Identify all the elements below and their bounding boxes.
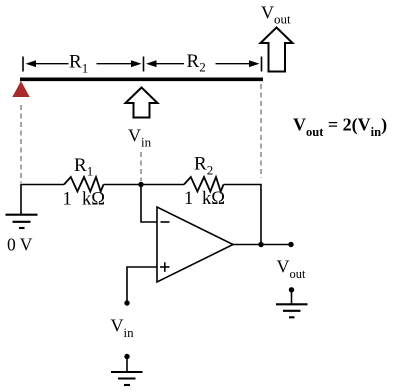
dimension arrow R2 right xyxy=(216,60,260,67)
plus pin symbol xyxy=(160,262,170,272)
svg-text:Vout = 2(Vin): Vout = 2(Vin) xyxy=(293,115,387,140)
svg-text:R1: R1 xyxy=(74,155,93,179)
dimension tick right xyxy=(261,57,263,72)
resistor R1 xyxy=(64,177,104,192)
dimension arrow R1 left xyxy=(26,60,69,67)
wire: R2 to output column xyxy=(224,185,262,245)
wire: dot to ground (right) xyxy=(291,290,293,304)
svg-text:Vin: Vin xyxy=(111,316,135,341)
wire: node down to inverting input xyxy=(141,185,157,223)
output junction dot xyxy=(258,242,263,247)
node junction dot xyxy=(138,182,143,187)
Vout hollow arrow xyxy=(261,28,293,72)
lever bar (potentiometer analogy) xyxy=(20,78,263,82)
svg-text:Vout: Vout xyxy=(277,257,307,282)
dimension tick left xyxy=(22,57,24,72)
minus pin symbol xyxy=(161,221,170,223)
svg-text:Vout: Vout xyxy=(261,3,291,27)
wire: op-amp output xyxy=(233,244,291,246)
Vout ground terminal dot xyxy=(289,287,294,292)
svg-text:1kΩ: 1kΩ xyxy=(184,189,225,209)
wire: R1 to node xyxy=(104,184,142,186)
wire: node to R2 xyxy=(141,184,184,186)
ground symbol bottom middle xyxy=(111,372,143,385)
dashed construction line left xyxy=(20,105,22,183)
svg-text:R2: R2 xyxy=(187,51,206,75)
svg-text:R2: R2 xyxy=(194,154,213,178)
wire: ground to R1 xyxy=(21,185,64,215)
svg-text:R1: R1 xyxy=(69,52,88,76)
ground symbol left xyxy=(6,215,38,228)
output terminal dot xyxy=(288,242,293,247)
op-amp U1 xyxy=(157,207,233,282)
Vin terminal dot xyxy=(124,300,129,305)
svg-text:1kΩ: 1kΩ xyxy=(63,190,106,210)
wire: dot to ground (bottom middle) xyxy=(126,357,128,372)
Vin ground terminal dot xyxy=(124,354,129,359)
dashed construction line right xyxy=(260,84,262,178)
svg-text:Vin: Vin xyxy=(128,126,152,150)
fulcrum (red wiper triangle) xyxy=(12,81,29,97)
resistor R2 xyxy=(184,177,224,192)
dimension arrow R2 left xyxy=(146,60,184,67)
ground symbol right xyxy=(276,304,308,317)
dimension arrow R1 right xyxy=(97,60,142,67)
Vin hollow arrow xyxy=(126,88,158,118)
dimension tick middle xyxy=(143,57,145,72)
svg-text:0 V: 0 V xyxy=(7,235,33,255)
dashed construction line middle xyxy=(140,152,142,181)
wire: noninverting input xyxy=(127,267,157,303)
